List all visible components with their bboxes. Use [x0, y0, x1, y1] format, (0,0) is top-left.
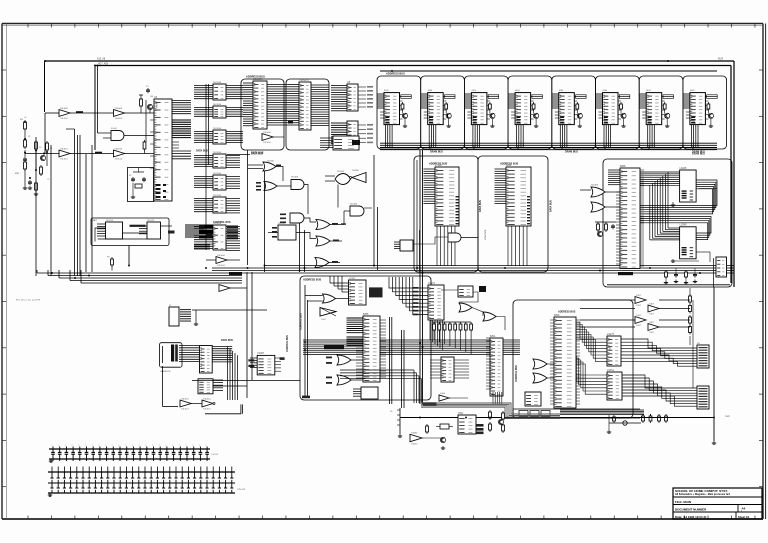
svg-text:LS161: LS161: [428, 282, 436, 285]
svg-text:PWR: PWR: [725, 416, 730, 418]
svg-text:OSC: OSC: [458, 412, 463, 415]
svg-text:R3: R3: [39, 147, 41, 149]
svg-text:74S260: 74S260: [352, 170, 360, 172]
svg-text:CONTROL BUS: CONTROL BUS: [213, 221, 231, 224]
svg-text:74LS08: 74LS08: [291, 177, 299, 179]
svg-text:AD7..AD0: AD7..AD0: [98, 63, 109, 66]
svg-text:A4: A4: [742, 507, 746, 511]
svg-text:ADDRESS BUS: ADDRESS BUS: [303, 279, 322, 282]
svg-text:74LS74: 74LS74: [106, 220, 114, 222]
svg-text:RST: RST: [15, 173, 20, 175]
svg-text:C2: C2: [28, 184, 30, 186]
svg-text:74LS04: 74LS04: [60, 118, 68, 120]
svg-text:Sheet 1/1: Sheet 1/1: [738, 515, 750, 519]
svg-text:8255: 8255: [363, 313, 369, 316]
svg-text:CONTROL BUS: CONTROL BUS: [301, 313, 303, 330]
svg-text:7407: 7407: [649, 303, 655, 305]
svg-text:DATA BUS: DATA BUS: [550, 200, 553, 212]
svg-text:74LS14: 74LS14: [181, 409, 189, 411]
svg-text:74LS14: 74LS14: [115, 148, 123, 150]
svg-text:74LS04: 74LS04: [217, 265, 225, 267]
svg-text:7407: 7407: [636, 305, 642, 307]
svg-text:A15..A8: A15..A8: [97, 58, 106, 61]
svg-text:WAIT: WAIT: [92, 219, 98, 222]
svg-text:74LS04: 74LS04: [60, 108, 68, 110]
svg-text:8259: 8259: [554, 314, 560, 317]
svg-text:Rev. Descr. Init. (c) 1979: Rev. Descr. Init. (c) 1979: [16, 299, 41, 302]
svg-text:LS138: LS138: [349, 278, 356, 280]
svg-text:CASSETTE: CASSETTE: [160, 370, 171, 373]
svg-text:74LS244: 74LS244: [213, 152, 222, 154]
svg-text:74LS14: 74LS14: [115, 159, 123, 161]
svg-text:74LS04: 74LS04: [115, 118, 123, 120]
svg-text:7407: 7407: [636, 325, 642, 327]
svg-text:LS367: LS367: [257, 352, 265, 355]
svg-text:74LS04: 74LS04: [263, 142, 271, 144]
svg-text:74LS04: 74LS04: [217, 255, 225, 257]
svg-text:74LS08: 74LS08: [350, 204, 358, 206]
svg-text:74LS244: 74LS244: [213, 82, 222, 84]
svg-text:LS245: LS245: [680, 224, 688, 227]
svg-text:74LS86: 74LS86: [337, 171, 345, 173]
svg-text:74LS244: 74LS244: [213, 128, 222, 130]
svg-text:74LS04: 74LS04: [263, 132, 271, 134]
svg-text:SCHOOL OF HOME COMPUT. SYST.: SCHOOL OF HOME COMPUT. SYST.: [675, 489, 728, 493]
svg-text:74LS244: 74LS244: [213, 195, 222, 197]
svg-text:LS04: LS04: [440, 393, 446, 395]
svg-text:DRAM BUS: DRAM BUS: [565, 151, 578, 154]
svg-text:DATA BUS: DATA BUS: [251, 152, 264, 155]
svg-text:FILE: MAIN: FILE: MAIN: [675, 500, 691, 504]
svg-text:74LS32: 74LS32: [267, 161, 275, 163]
svg-text:R2: R2: [28, 136, 30, 138]
svg-text:LS245: LS245: [680, 167, 688, 170]
svg-text:74LS14: 74LS14: [60, 159, 68, 161]
svg-text:8253: 8253: [608, 346, 610, 352]
svg-text:C3: C3: [47, 179, 49, 181]
svg-text:74S04: 74S04: [411, 432, 418, 434]
svg-text:7407: 7407: [649, 322, 655, 324]
svg-text:MUX: MUX: [718, 59, 724, 61]
svg-text:LS151: LS151: [607, 369, 615, 372]
svg-text:CONTROL BUS: CONTROL BUS: [516, 365, 518, 382]
svg-text:74LS244: 74LS244: [213, 104, 222, 106]
svg-text:74LS14: 74LS14: [60, 148, 68, 150]
svg-text:LS175: LS175: [607, 333, 615, 336]
svg-text:74LS14: 74LS14: [181, 398, 189, 400]
svg-text:All Schematics + Diagrams -: All Schematics + Diagrams - Main process…: [675, 493, 730, 496]
svg-text:8284: 8284: [155, 103, 157, 109]
svg-text:27128: 27128: [435, 164, 442, 167]
svg-text:D1-08: D1-08: [111, 128, 117, 130]
svg-text:DATA BUS: DATA BUS: [221, 339, 233, 342]
svg-text:7407: 7407: [636, 295, 642, 297]
svg-text:7407: 7407: [636, 315, 642, 317]
svg-text:DRAM BUS: DRAM BUS: [430, 151, 443, 154]
svg-text:74LS373: 74LS373: [299, 79, 309, 82]
svg-text:C1-C24: C1-C24: [211, 454, 219, 456]
svg-text:DATA BUS: DATA BUS: [196, 150, 208, 153]
svg-text:Date: 4.3 1983 19:04:41: Date: 4.3 1983 19:04:41: [675, 515, 707, 519]
svg-text:6264: 6264: [506, 164, 512, 167]
svg-text:74S04: 74S04: [411, 443, 418, 445]
svg-text:74LS04: 74LS04: [115, 108, 123, 110]
svg-text:74LS74: 74LS74: [278, 223, 286, 225]
svg-text:CONTROL BUS: CONTROL BUS: [287, 335, 289, 352]
svg-text:74LS14: 74LS14: [203, 398, 211, 400]
svg-text:DRAM BUS: DRAM BUS: [692, 153, 705, 156]
svg-text:CONTROL: CONTROL: [485, 229, 487, 240]
svg-text:74LS74: 74LS74: [147, 220, 155, 222]
svg-text:8088: 8088: [620, 165, 626, 168]
svg-text:7407: 7407: [649, 332, 655, 334]
svg-text:ADDRESS BUS: ADDRESS BUS: [558, 311, 576, 314]
svg-text:74LS244: 74LS244: [213, 173, 222, 175]
svg-text:74LS14: 74LS14: [203, 409, 211, 411]
svg-text:8251: 8251: [490, 335, 496, 338]
svg-text:DATA BUS: DATA BUS: [479, 200, 482, 212]
svg-text:7407: 7407: [649, 314, 655, 316]
svg-text:ADDRESS BUS: ADDRESS BUS: [386, 72, 405, 76]
svg-text:C25-C55: C25-C55: [237, 489, 246, 491]
svg-text:DOCUMENT NUMBER: DOCUMENT NUMBER: [675, 508, 707, 512]
svg-text:74LS08: 74LS08: [591, 185, 599, 187]
